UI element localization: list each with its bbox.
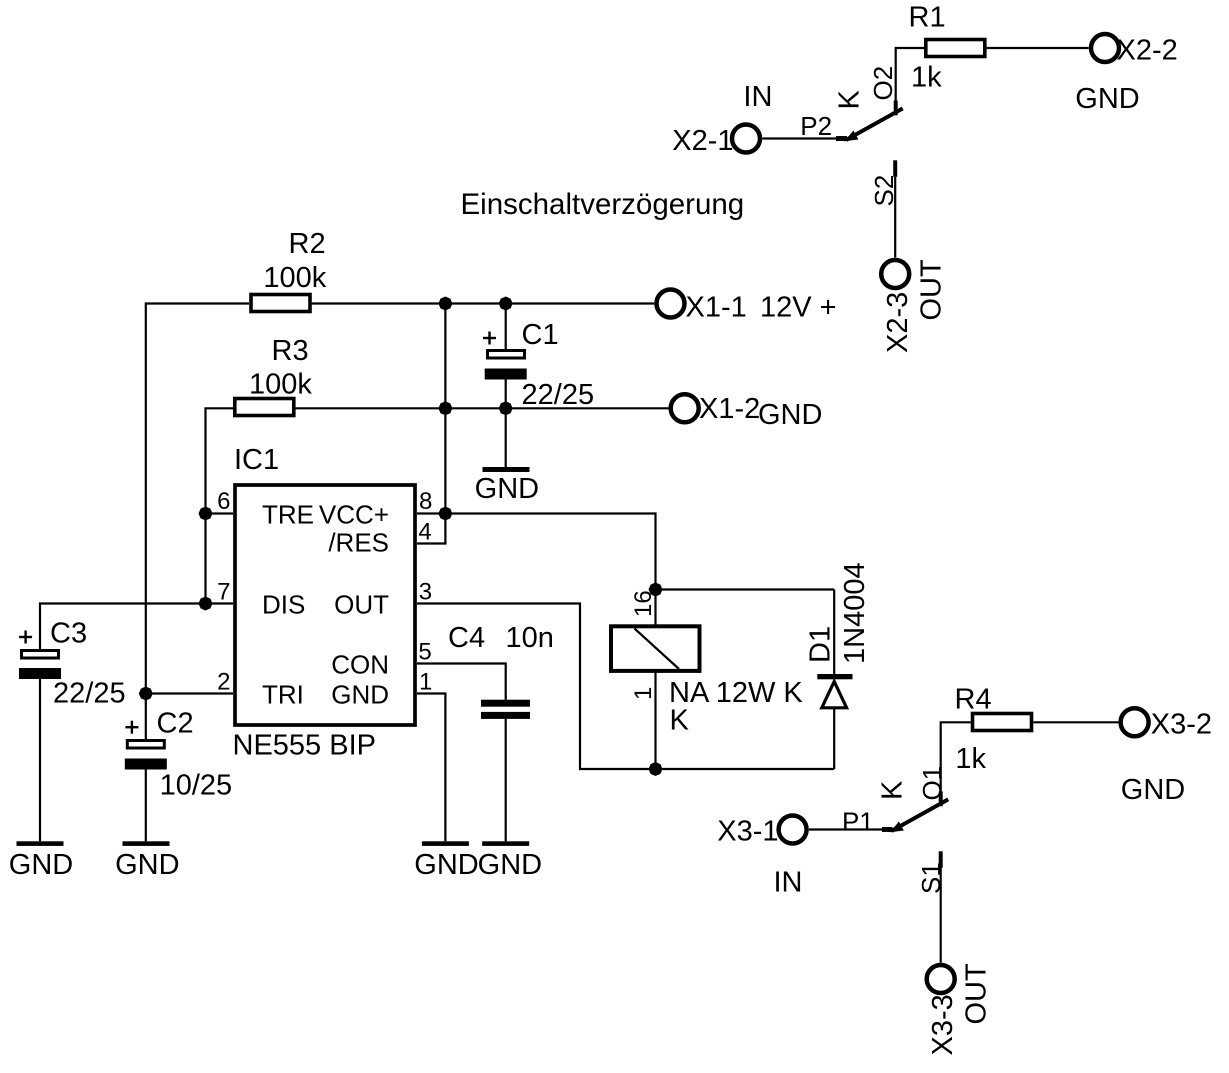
svg-text:8: 8	[419, 488, 432, 515]
pad X2-1	[732, 125, 760, 153]
svg-text:1k: 1k	[955, 743, 986, 775]
svg-text:GND: GND	[478, 849, 542, 881]
wire V+ rail to left vertical rail down to pin2	[146, 304, 249, 694]
svg-text:100k: 100k	[249, 369, 312, 401]
junction pin7	[199, 597, 213, 611]
ground symbol under C2	[123, 841, 170, 846]
wire pin7 stub	[206, 602, 234, 604]
svg-text:12V +: 12V +	[760, 292, 837, 324]
capacitor C1	[483, 332, 527, 380]
pad X3-1	[779, 816, 807, 844]
wire V+ rail from R2 to X1-1	[311, 302, 655, 304]
svg-text:X3-1: X3-1	[717, 816, 778, 848]
svg-text:R3: R3	[272, 335, 309, 367]
svg-text:O1: O1	[917, 766, 947, 801]
capacitor C4	[481, 700, 530, 719]
wire D1 cathode lead	[833, 590, 835, 677]
svg-text:P1: P1	[842, 807, 874, 837]
svg-text:4: 4	[418, 519, 431, 546]
wire C4 bottom lead to GND	[505, 719, 507, 841]
wire pin3 OUT to bottom rail	[417, 604, 834, 770]
svg-text:NE555 BIP: NE555 BIP	[233, 730, 376, 762]
resistor R2 body	[251, 295, 310, 312]
svg-text:IN: IN	[774, 867, 803, 899]
svg-text:C1: C1	[522, 319, 559, 351]
svg-text:GND: GND	[758, 399, 822, 431]
svg-text:K: K	[834, 90, 866, 110]
svg-text:10n: 10n	[506, 622, 554, 654]
svg-text:GND: GND	[414, 849, 478, 881]
svg-text:NA 12W K: NA 12W K	[669, 677, 803, 709]
svg-text:X1-1: X1-1	[686, 292, 747, 324]
svg-text:6: 6	[217, 488, 230, 515]
wire pin7 to C3	[40, 604, 206, 650]
svg-text:K: K	[877, 780, 909, 800]
wire O2 riser and R1 left lead	[896, 48, 924, 101]
svg-text:7: 7	[217, 579, 230, 606]
switch K contact O1	[939, 792, 943, 807]
svg-text:GND: GND	[9, 849, 73, 881]
wire relay coil pin1	[654, 671, 656, 769]
svg-text:Einschaltverzögerung: Einschaltverzögerung	[461, 188, 745, 221]
wire S2 contact to X2-3	[894, 177, 896, 258]
svg-text:C2: C2	[157, 708, 194, 740]
pad X1-2	[671, 394, 699, 422]
svg-text:GND: GND	[115, 849, 179, 881]
wire relay junction to D1 cathode	[656, 588, 835, 590]
svg-text:X2-2: X2-2	[1117, 35, 1178, 67]
wire X3-1 to switch pivot	[809, 828, 882, 830]
junction pin8	[438, 507, 452, 521]
switch gate1 pivot stub	[882, 827, 893, 832]
pad X2-2	[1091, 34, 1119, 62]
wire R1 right lead to X2-2	[987, 47, 1089, 49]
svg-text:10/25: 10/25	[160, 770, 233, 802]
svg-text:R1: R1	[909, 2, 946, 34]
wire C3 bottom lead to GND	[39, 679, 41, 841]
svg-text:5: 5	[418, 639, 431, 666]
junction R3/x445	[438, 401, 452, 415]
svg-text:K: K	[670, 705, 690, 737]
svg-text:IC1: IC1	[234, 444, 279, 476]
wire pin2 stub	[146, 692, 233, 694]
svg-text:1N4004: 1N4004	[839, 562, 871, 664]
svg-text:X3-3: X3-3	[927, 994, 959, 1055]
svg-text:GND: GND	[331, 680, 389, 710]
pad X3-2	[1121, 708, 1149, 736]
junction pin6	[199, 507, 213, 521]
svg-text:1k: 1k	[911, 62, 942, 94]
switch K gate2 blade	[846, 108, 903, 140]
switch K contact O2	[894, 101, 898, 116]
switch K contact S1	[939, 851, 943, 868]
svg-text:P2: P2	[800, 111, 832, 141]
ground symbol under C4	[482, 841, 529, 846]
switch K gate2 pivot arrow	[845, 131, 859, 142]
svg-text:1: 1	[630, 687, 657, 700]
resistor R4 body	[973, 714, 1032, 731]
junction relay pin16/D1	[649, 583, 663, 597]
svg-text:X3-2: X3-2	[1151, 709, 1212, 741]
svg-text:R2: R2	[289, 228, 326, 260]
wire C2 top lead	[145, 694, 147, 741]
resistor R3 body	[235, 399, 294, 416]
svg-text:C4: C4	[448, 622, 485, 654]
wire X2-1 to switch pivot	[762, 137, 836, 139]
wire R4 right lead to X3-2	[1033, 721, 1118, 723]
wire S1 contact to X3-3	[940, 868, 942, 963]
svg-text:OUT: OUT	[916, 259, 948, 321]
svg-text:O2: O2	[868, 66, 898, 101]
svg-text:X2-3: X2-3	[882, 292, 914, 353]
junction rail/C1	[499, 297, 513, 311]
svg-text:22/25: 22/25	[53, 678, 126, 710]
wire C1 top lead	[505, 304, 507, 350]
svg-text:S1: S1	[916, 862, 946, 894]
switch K gate1 pivot arrow	[890, 822, 904, 833]
svg-text:GND: GND	[1121, 774, 1185, 806]
svg-text:DIS: DIS	[262, 590, 305, 620]
svg-text:/RES: /RES	[328, 528, 389, 558]
svg-text:TRE: TRE	[262, 500, 314, 530]
diode D1	[817, 674, 852, 708]
svg-text:TRI: TRI	[262, 680, 304, 710]
wire R3 left lead down to pin7	[206, 408, 234, 603]
svg-text:100k: 100k	[263, 262, 326, 294]
wire IC pin1 to GND	[417, 694, 445, 842]
svg-text:X2-1: X2-1	[672, 125, 733, 157]
svg-text:CON: CON	[331, 650, 389, 680]
wire pin8 junction to relay pin16	[445, 514, 655, 627]
ground symbol under C1	[483, 467, 530, 472]
svg-text:3: 3	[419, 579, 432, 606]
wire pin6 stub	[206, 512, 234, 514]
junction X1-2/C1	[499, 401, 513, 415]
relay K coil body	[611, 626, 700, 671]
wire O1 riser and R4 left lead	[941, 722, 971, 791]
switch K contact S2	[893, 160, 897, 177]
svg-text:OUT: OUT	[334, 590, 389, 620]
svg-text:1: 1	[419, 669, 432, 696]
wire D1 anode lead	[833, 708, 835, 769]
junction rail/x445	[438, 297, 452, 311]
switch K gate1 blade	[892, 799, 949, 831]
wire C2 bottom lead to GND	[145, 770, 147, 842]
junction pin2	[139, 687, 153, 701]
wire pin8 stub	[417, 512, 445, 514]
wire R3 right to X1-2	[296, 407, 669, 409]
wire pin4 stub	[417, 514, 445, 544]
svg-text:22/25: 22/25	[522, 379, 595, 411]
svg-text:OUT: OUT	[961, 963, 993, 1025]
resistor R1 body	[926, 40, 985, 57]
svg-text:GND: GND	[1075, 83, 1139, 115]
svg-text:R4: R4	[955, 684, 992, 716]
svg-text:S2: S2	[869, 175, 899, 207]
svg-text:C3: C3	[50, 618, 87, 650]
svg-text:GND: GND	[475, 473, 539, 505]
ground symbol under IC pin1	[422, 841, 469, 846]
op-amp IC1 body (NE555)	[235, 485, 415, 725]
svg-text:16: 16	[630, 590, 657, 617]
wire C1 bottom lead to GND	[505, 380, 507, 468]
junction relay pin1/bottom rail	[649, 762, 663, 776]
svg-text:IN: IN	[743, 81, 772, 113]
svg-text:VCC+: VCC+	[319, 500, 389, 530]
switch gate2 pivot stub	[836, 136, 847, 141]
capacitor C2	[125, 721, 167, 770]
pad X3-3	[927, 965, 955, 993]
wire vertical x=445 from rail to pin8	[444, 304, 446, 514]
pad X2-3	[881, 260, 909, 288]
wire pin5 to C4	[417, 664, 506, 700]
capacitor C3	[19, 631, 61, 680]
pad X1-1	[657, 290, 685, 318]
ground symbol under C3	[17, 841, 64, 846]
svg-text:X1-2: X1-2	[699, 393, 760, 425]
svg-text:D1: D1	[805, 626, 837, 663]
svg-text:2: 2	[217, 669, 230, 696]
